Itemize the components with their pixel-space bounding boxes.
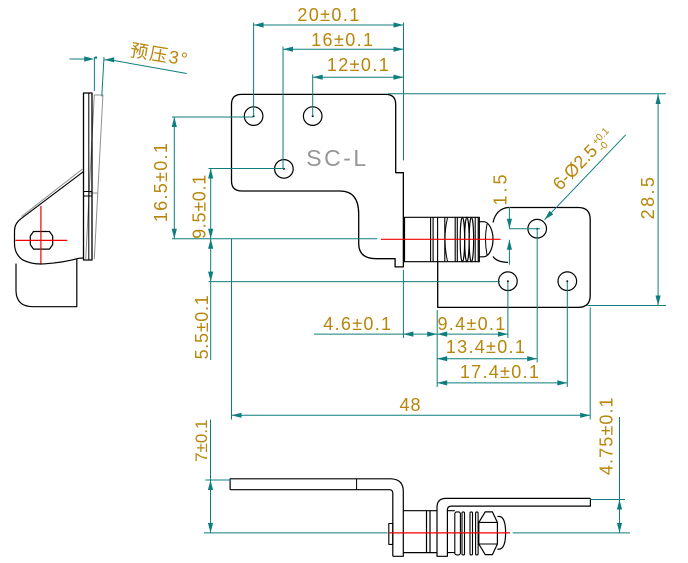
barrel body [405,217,480,261]
leader 6-φ2.5 line [545,135,626,220]
lower leaf extension [16,259,77,307]
svg-text:4.6±0.1: 4.6±0.1 [323,314,392,334]
svg-text:SC-L: SC-L [306,145,368,171]
dim 20±0.1 lines [254,23,404,161]
svg-text:9.5±0.1: 9.5±0.1 [190,174,210,239]
arrows dim17.4 [437,380,447,385]
hole H4 right-plate top [528,219,547,238]
hole H3 middle [275,160,294,179]
hole H5 right-plate bottom-left [499,272,518,291]
dim 48 lines [232,239,591,420]
dim 16.5±0.1 lines [172,117,377,239]
bottom end cap [497,517,505,550]
bracket hypotenuse gray line [22,169,83,217]
right plate outline [438,208,591,308]
arrows dim1.5 [507,219,512,229]
arrow leader [543,211,554,222]
vane split lines [84,93,93,260]
dim 9.5±0.1 lines [209,169,284,239]
tilted vane split line gray [89,192,98,194]
dim 4.75±0.1 lines [513,417,630,533]
arrows angle dim [84,56,94,61]
side view centerline red vertical [40,206,42,264]
hex nut (side) [30,232,52,250]
pivot bracket outline [15,171,85,264]
barrel end cap [479,222,493,257]
arrows dim20 [254,22,264,27]
main axis centerline red [381,238,501,240]
arrows dim48 [232,413,242,418]
arrows dim5.5 [208,239,213,249]
svg-text:13.4±0.1: 13.4±0.1 [446,337,526,357]
bottom barrel cylinder [403,511,437,553]
arrows dim12 [313,75,323,80]
left bar outer with bend [230,479,403,557]
arrows dim4.6 [403,332,413,337]
dim 12±0.1 lines [313,75,404,117]
left bar inner with bend [230,490,393,557]
arrowheads [84,22,660,533]
svg-text:17.4±0.1: 17.4±0.1 [460,362,540,382]
cap to right plate transition curves [493,208,508,223]
hex nut facets [479,522,498,544]
svg-text:28.5: 28.5 [638,175,658,220]
angle dim vertex dot [95,56,97,58]
text 6-φ2.5 +0.1/-0 [549,124,619,195]
bottom barrel mid section [455,512,461,555]
dim 28.5 lines [388,94,666,306]
left bar seam [356,479,358,490]
svg-text:5.5±0.1: 5.5±0.1 [192,295,212,360]
dim 1.5 lines [509,207,540,265]
tilted vane (gray, preload position) [86,95,103,259]
dim 13.4±0.1 lines [437,229,537,363]
dim 4.6±0.1 lines [314,270,437,338]
hex nut (bottom) [479,512,498,555]
arrows dim9.4 [437,332,447,337]
right bar with knuckle flange [437,498,590,556]
barrel shading curve [445,218,448,261]
hole H1 top-left [244,107,263,126]
hole H2 top-right [303,107,322,126]
dim 16±0.1 lines [283,47,404,169]
hole H6 right-plate bottom-right [558,272,577,291]
svg-text:16±0.1: 16±0.1 [311,30,374,50]
bottom spring coils [462,512,465,555]
arrows dim4.75 [617,500,622,510]
angle dim 预压3° lines [70,57,187,96]
arrows dim7 [208,480,213,490]
barrel segment lines [431,217,458,261]
arrows dim13.4 [437,356,447,361]
svg-text:12±0.1: 12±0.1 [327,55,390,75]
arrows dim16.5 [172,117,177,127]
vane (vertical plate) [84,93,93,260]
main plate outline [232,94,404,267]
dim 9.4±0.1 lines [437,282,508,387]
dim 7±0.1 lines [204,420,388,533]
dim 17.4±0.1 lines [437,282,567,387]
arrows dim9.5 [208,169,213,179]
svg-text:4.75±0.1: 4.75±0.1 [597,396,617,475]
svg-text:16.5±0.1: 16.5±0.1 [151,142,171,222]
svg-text:7±0.1: 7±0.1 [192,419,211,461]
arrows dim16 [283,47,293,52]
svg-text:20±0.1: 20±0.1 [297,5,360,25]
arrows dim28.5 [656,94,661,104]
svg-text:9.4±0.1: 9.4±0.1 [437,314,506,334]
svg-text:1.5: 1.5 [491,171,511,205]
spring coils [460,217,464,261]
svg-text:48: 48 [399,395,421,415]
side view axis centerline red horizontal [15,239,67,241]
pivot pin tab [389,524,393,545]
bottom axis centerline red [389,532,510,534]
dim 5.5±0.1 lines [209,239,501,360]
